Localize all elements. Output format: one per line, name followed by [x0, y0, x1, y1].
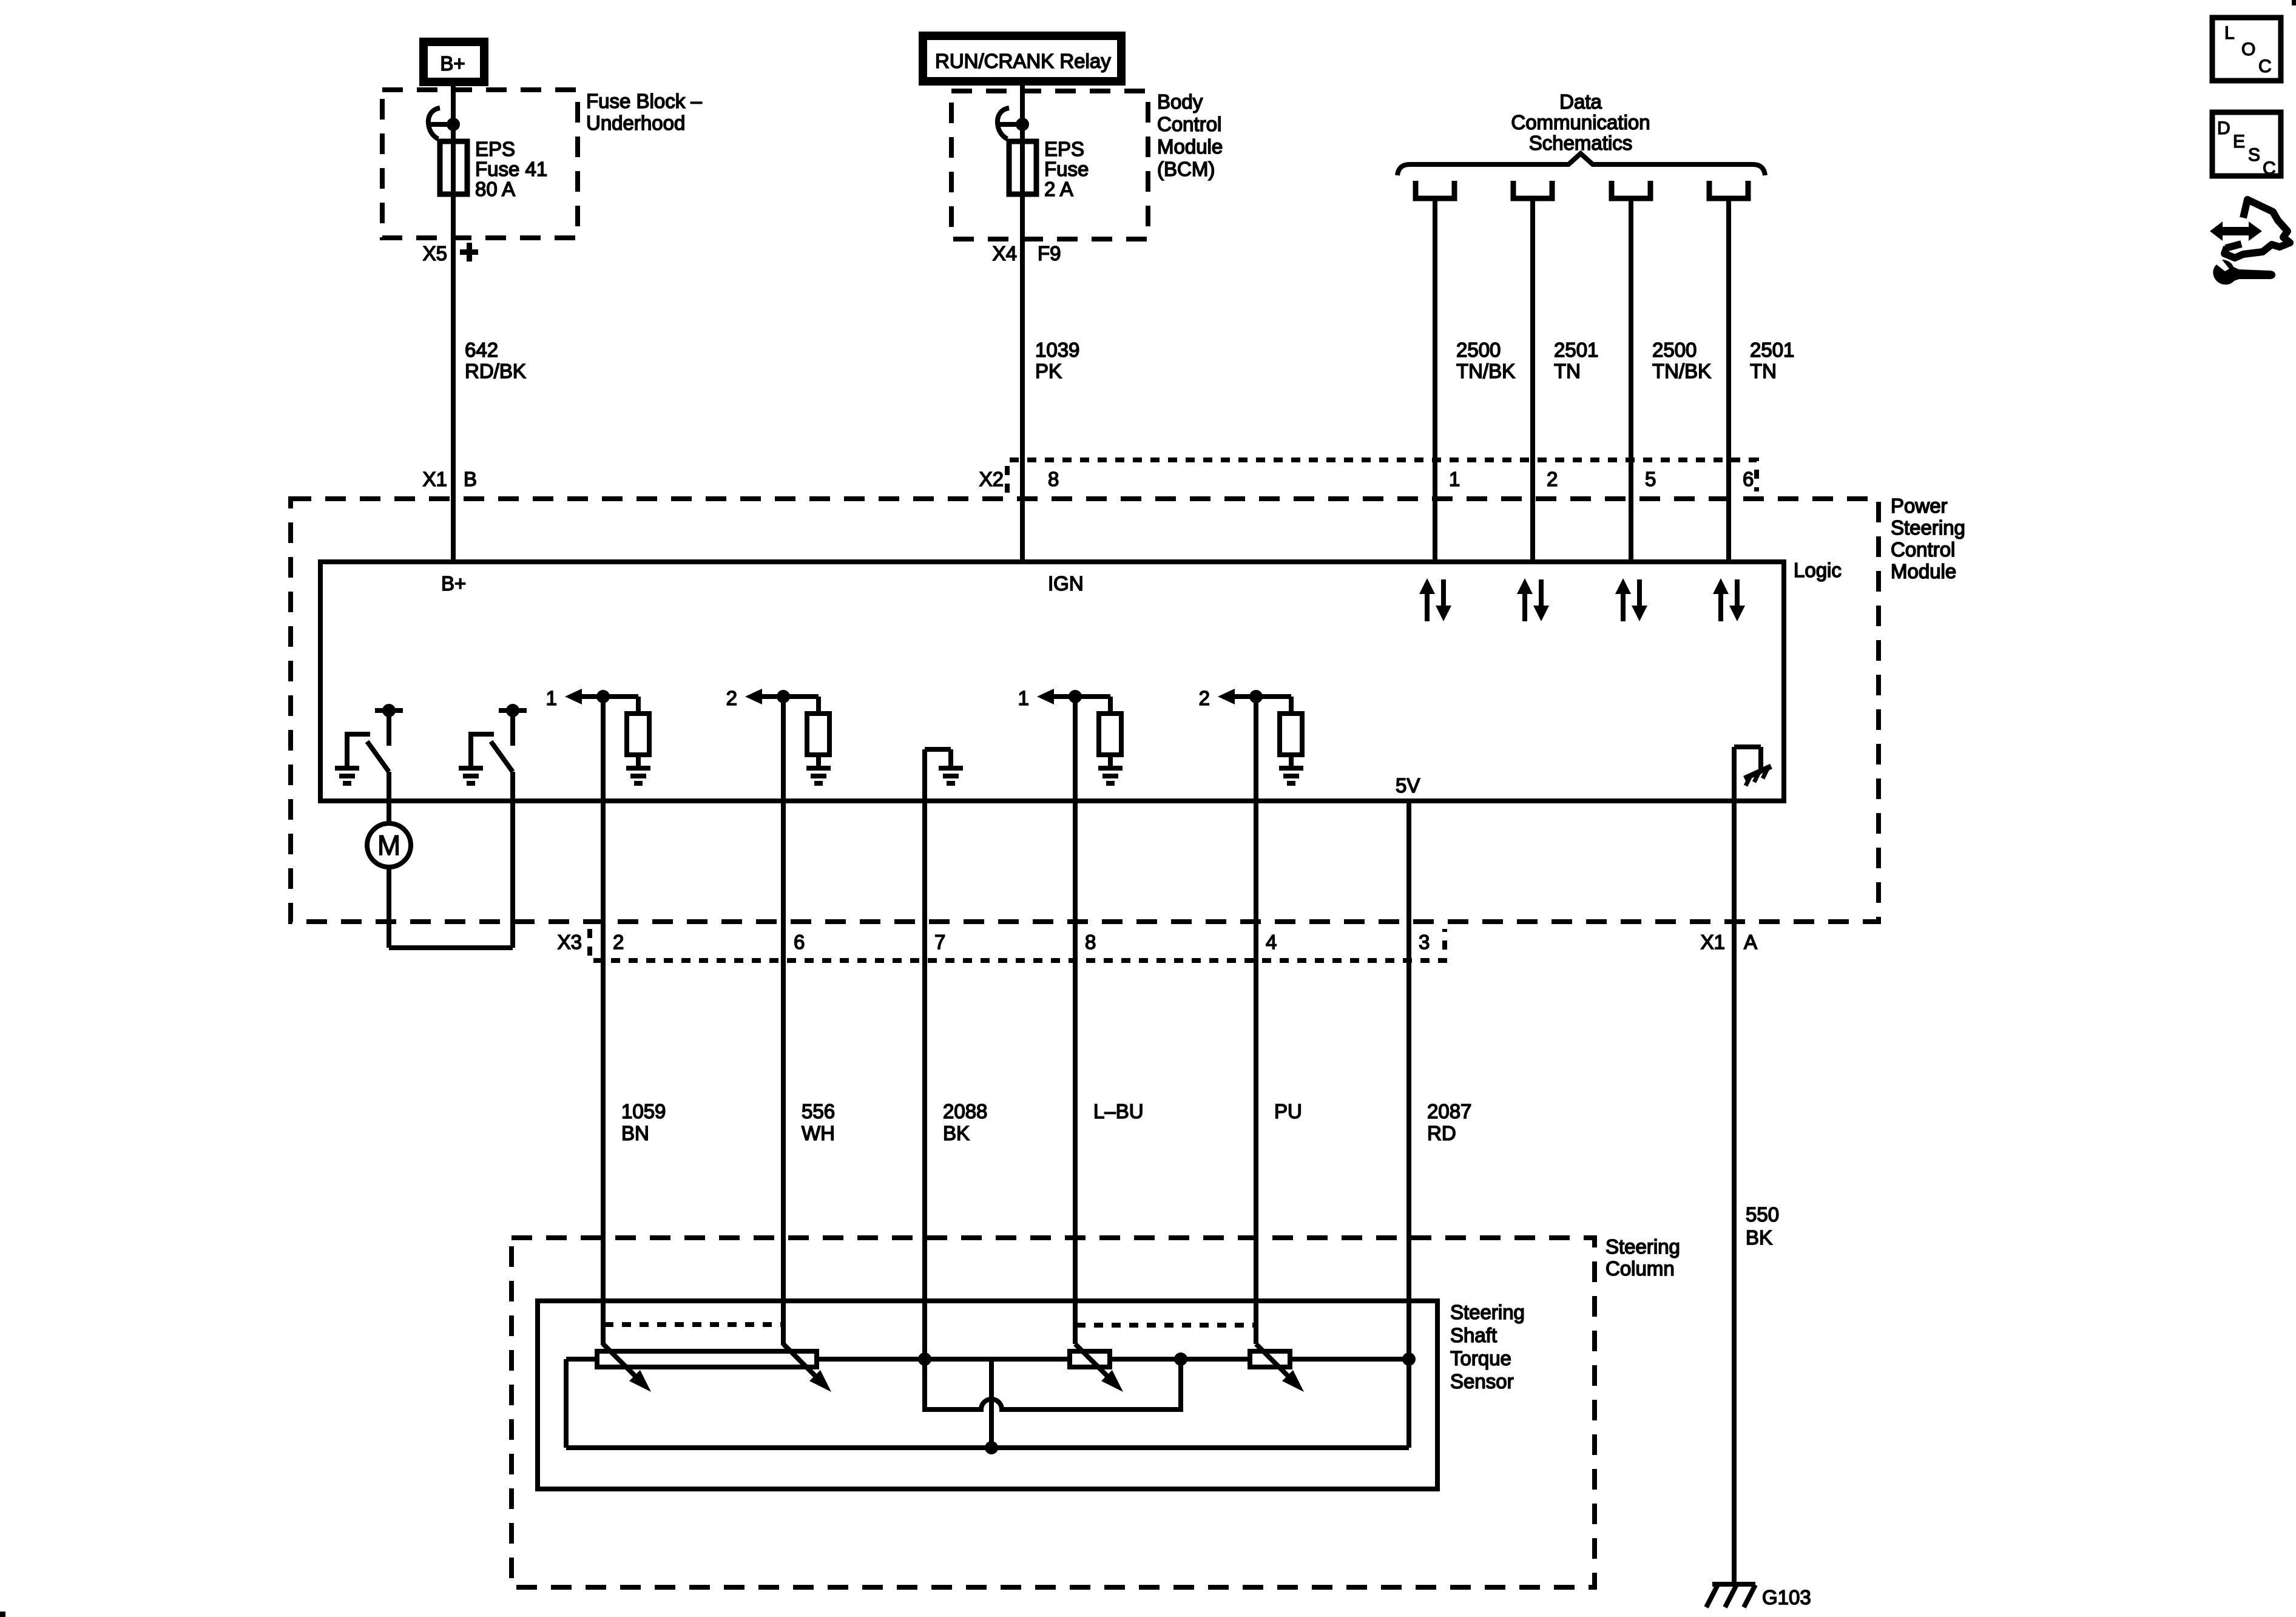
wire 2087 RD from 5V: [1406, 801, 1411, 1448]
svg-text:BK: BK: [1746, 1226, 1772, 1249]
svg-text:Steering: Steering: [1450, 1301, 1525, 1323]
wire 556 WH: [781, 697, 786, 1345]
fuse EPS Fuse 41 80 A: [440, 138, 547, 200]
ground (signal) for switch 2: [459, 766, 483, 771]
wire label 1039 PK: [1035, 339, 1079, 382]
wire 1059 BN: [601, 697, 606, 1345]
wire motor low side: [387, 867, 391, 948]
power steering control module dashed boundary: [291, 499, 1879, 922]
svg-text:Logic: Logic: [1794, 559, 1842, 581]
wire pot2 left to return: [989, 1359, 994, 1448]
svg-text:PK: PK: [1035, 360, 1062, 382]
wiper arrow for wire at x=1291: [783, 1344, 831, 1392]
svg-text:Body: Body: [1157, 90, 1203, 113]
connector X5 + label: [423, 242, 478, 265]
RUN/CRANK Relay box: [923, 36, 1121, 81]
fuse EPS Fuse 2 A: [1009, 138, 1089, 200]
svg-text:TN/BK: TN/BK: [1456, 360, 1515, 382]
svg-text:RUN/CRANK Relay: RUN/CRANK Relay: [935, 50, 1111, 72]
torque sensor label: [1450, 1301, 1525, 1393]
svg-text:6: 6: [1743, 468, 1754, 490]
bidirectional data arrows 1: [1419, 578, 1451, 621]
svg-text:2500: 2500: [1456, 339, 1501, 361]
resistor: [807, 714, 829, 755]
power terminal B+ box: [424, 42, 484, 82]
junction dots: [918, 1352, 931, 1366]
pot row wire segments: [566, 1357, 597, 1362]
ground (signal) for switch 1: [335, 766, 359, 771]
svg-text:Control: Control: [1891, 538, 1955, 561]
ground (signal): [806, 766, 831, 771]
DESC icon: [2212, 112, 2281, 178]
svg-text:4: 4: [1266, 931, 1277, 953]
wire L-BU: [1073, 697, 1078, 1344]
ground (signal): [1098, 766, 1123, 771]
svg-text:C: C: [2263, 158, 2276, 178]
ground G103 chassis symbol: [1706, 1584, 1811, 1609]
svg-text:Underhood: Underhood: [586, 112, 685, 134]
svg-text:1: 1: [546, 687, 557, 709]
svg-text:E: E: [2233, 132, 2245, 152]
svg-text:2087: 2087: [1427, 1100, 1471, 1122]
svg-text:BK: BK: [943, 1122, 970, 1144]
svg-text:O: O: [2241, 39, 2255, 59]
wire label 2087 RD: [1427, 1100, 1471, 1144]
data link connector symbol 3: [1612, 181, 1650, 198]
svg-text:B+: B+: [441, 572, 466, 595]
potentiometer track 2: [1070, 1351, 1110, 1367]
svg-text:X2: X2: [979, 468, 1004, 490]
svg-text:Fuse: Fuse: [1044, 158, 1089, 180]
mechanical link dotted 1: [604, 1322, 782, 1327]
svg-text:A: A: [1744, 931, 1757, 953]
signal ground hook on wire 2088 BK: [925, 749, 963, 783]
wire label 1059 BN: [621, 1100, 666, 1144]
svg-text:PU: PU: [1274, 1100, 1302, 1122]
connector X3 labels: [558, 931, 1430, 953]
svg-text:G103: G103: [1762, 1586, 1811, 1609]
svg-text:Torque: Torque: [1450, 1347, 1511, 1369]
wire serial data 4: [1726, 201, 1731, 562]
wire serial data 3: [1629, 201, 1633, 562]
svg-text:Sensor: Sensor: [1450, 1370, 1514, 1393]
svg-text:1059: 1059: [621, 1100, 666, 1122]
svg-text:8: 8: [1085, 931, 1096, 953]
wire label 2500 TN/BK: [1652, 339, 1711, 382]
motor M: [367, 801, 513, 948]
svg-text:TN: TN: [1554, 360, 1581, 382]
body control module dashed box: [951, 91, 1148, 239]
return wire 5V distribution: [566, 1445, 1409, 1450]
wire serial data 2: [1530, 201, 1535, 562]
steering shaft torque sensor box: [538, 1301, 1437, 1489]
wire label 550 BK: [1746, 1203, 1779, 1249]
resistor: [627, 714, 649, 755]
bidirectional data arrows 4: [1713, 578, 1745, 621]
svg-text:Communication: Communication: [1511, 111, 1650, 133]
svg-text:5V: 5V: [1396, 774, 1420, 797]
svg-text:X1: X1: [1701, 931, 1725, 953]
svg-text:F9: F9: [1038, 242, 1061, 265]
svg-text:6: 6: [794, 931, 805, 953]
PSCM pin X1 B label: [423, 468, 477, 490]
data link connector symbol 1: [1416, 181, 1454, 198]
steering column dashed boundary: [512, 1238, 1595, 1587]
svg-text:1: 1: [1018, 687, 1029, 709]
svg-text:X3: X3: [558, 931, 582, 953]
connector X3 dotted outline: [590, 929, 1445, 960]
sensor feed 2 arrow + pull-up resistor at x=1291: [726, 687, 831, 783]
svg-text:2: 2: [613, 931, 624, 953]
wire label 2501 TN: [1750, 339, 1794, 382]
page mark bottom left: [0, 1612, 5, 1617]
svg-text:8: 8: [1048, 468, 1059, 490]
svg-text:Control: Control: [1157, 113, 1221, 135]
resistor: [1099, 714, 1121, 755]
svg-text:550: 550: [1746, 1203, 1779, 1226]
wire 2088 BK: [922, 749, 927, 1359]
motor driver switch 2: [459, 704, 527, 803]
wire PU: [1254, 697, 1258, 1344]
svg-text:2501: 2501: [1554, 339, 1598, 361]
fuse block - underhood dashed box: [382, 90, 578, 238]
PSCM name label: [1891, 495, 1965, 582]
brace: [1397, 154, 1765, 175]
bus tap hook at fuse EPS Fuse 2A: [996, 108, 1029, 139]
svg-text:556: 556: [802, 1100, 835, 1122]
svg-text:Steering: Steering: [1891, 516, 1965, 539]
svg-text:2: 2: [1199, 687, 1210, 709]
svg-text:Fuse Block –: Fuse Block –: [586, 90, 702, 112]
svg-text:3: 3: [1419, 931, 1430, 953]
svg-text:5: 5: [1645, 468, 1656, 490]
wire 1039 PK from relay to PSCM IGN: [1020, 86, 1025, 562]
svg-text:Module: Module: [1891, 560, 1956, 582]
svg-text:642: 642: [465, 339, 498, 361]
svg-text:Steering: Steering: [1606, 1235, 1680, 1258]
resistor: [1280, 714, 1302, 755]
PSCM pin X2 8 label: [979, 468, 1059, 490]
wire 642 RD/BK from B+ to PSCM pin B: [451, 85, 456, 562]
svg-text:L–BU: L–BU: [1093, 1100, 1144, 1122]
wire label 556 WH: [802, 1100, 835, 1144]
ground (signal): [939, 766, 963, 771]
connector X4 F9 label: [993, 242, 1061, 265]
potentiometer track 1 (dual): [597, 1351, 817, 1367]
svg-text:X5: X5: [423, 242, 447, 265]
motor driver switch 1: [335, 704, 403, 803]
svg-text:7: 7: [934, 931, 945, 953]
data link connector symbol 2: [1513, 181, 1552, 198]
wire label 2088 BK: [943, 1100, 987, 1144]
svg-text:Data: Data: [1559, 90, 1602, 113]
svg-text:1: 1: [1449, 468, 1460, 490]
svg-text:B+: B+: [440, 52, 465, 75]
wrench icon: [2213, 260, 2275, 285]
ground jog wire with hop: [925, 1359, 1181, 1409]
chassis ground hook inside logic module: [1734, 747, 1771, 786]
wire label 2500 TN/BK: [1456, 339, 1515, 382]
svg-text:Column: Column: [1606, 1257, 1675, 1280]
connector X2 dotted outline: [1007, 460, 1757, 493]
wire pot1 left to return: [564, 1359, 569, 1448]
wiper arrow for wire at x=994: [603, 1344, 651, 1392]
pointer hand with double arrow icon: [2210, 200, 2290, 258]
svg-text:RD: RD: [1427, 1122, 1456, 1144]
sensor feed 1 arrow + pull-up resistor at x=1772: [1018, 687, 1123, 783]
svg-text:2500: 2500: [1652, 339, 1697, 361]
svg-text:Module: Module: [1157, 135, 1223, 158]
svg-text:TN/BK: TN/BK: [1652, 360, 1711, 382]
wiper arrow for wire at x=1772: [1075, 1344, 1123, 1392]
svg-text:EPS: EPS: [1044, 138, 1084, 160]
bidirectional data arrows 3: [1615, 578, 1647, 621]
sensor feed 1 arrow + pull-up resistor at x=994: [546, 687, 650, 783]
svg-text:Power: Power: [1891, 495, 1948, 517]
mechanical link dotted 2: [1076, 1323, 1255, 1328]
ground (signal): [626, 766, 650, 771]
svg-text:2: 2: [1547, 468, 1558, 490]
svg-text:B: B: [464, 468, 477, 490]
svg-text:RD/BK: RD/BK: [465, 360, 526, 382]
svg-text:D: D: [2217, 118, 2230, 138]
LOC icon: [2212, 18, 2281, 81]
svg-text:L: L: [2224, 23, 2235, 43]
bus tap hook at fuse EPS Fuse 41: [427, 108, 460, 139]
svg-text:2088: 2088: [943, 1100, 987, 1122]
svg-text:WH: WH: [802, 1122, 835, 1144]
page mark top right: [2292, 0, 2296, 5]
wire 550 BK ground: [1732, 747, 1737, 1584]
sensor feed 2 arrow + pull-up resistor at x=2070: [1199, 687, 1303, 783]
svg-text:TN: TN: [1750, 360, 1777, 382]
fuse block underhood label: [586, 90, 702, 134]
logic module box: [320, 562, 1784, 801]
wire label 2501 TN: [1554, 339, 1598, 382]
svg-text:Shaft: Shaft: [1450, 1324, 1497, 1346]
BCM label: [1157, 90, 1223, 180]
wiper arrow for wire at x=2070: [1256, 1344, 1304, 1392]
bidirectional data arrows 2: [1517, 578, 1549, 621]
svg-text:C: C: [2258, 56, 2272, 76]
svg-text:80 A: 80 A: [475, 178, 515, 200]
X2 pin numbers 1 2 5 6: [1449, 468, 1754, 490]
data communication schematics label: [1511, 90, 1650, 154]
connector X1 A label: [1701, 931, 1757, 953]
wire label 642 RD/BK: [465, 339, 526, 382]
svg-text:2501: 2501: [1750, 339, 1794, 361]
svg-text:(BCM): (BCM): [1157, 158, 1215, 180]
potentiometer track 3: [1250, 1351, 1290, 1367]
svg-text:M: M: [377, 829, 400, 861]
svg-text:X1: X1: [423, 468, 447, 490]
svg-text:1039: 1039: [1035, 339, 1079, 361]
steering column label: [1606, 1235, 1680, 1280]
svg-text:Fuse 41: Fuse 41: [475, 158, 547, 180]
data link connector symbol 4: [1709, 181, 1748, 198]
svg-text:S: S: [2248, 145, 2260, 165]
svg-text:IGN: IGN: [1048, 572, 1084, 595]
wire serial data 1: [1433, 201, 1437, 562]
ground (signal): [1279, 766, 1303, 771]
svg-text:BN: BN: [621, 1122, 649, 1144]
svg-text:EPS: EPS: [475, 138, 515, 160]
svg-text:2 A: 2 A: [1044, 178, 1073, 200]
svg-text:X4: X4: [993, 242, 1017, 265]
svg-text:2: 2: [726, 687, 737, 709]
